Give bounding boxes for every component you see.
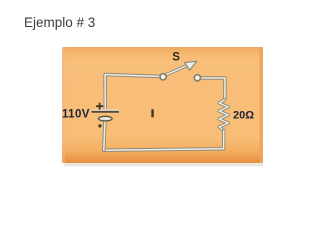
panel shadow (64, 163, 263, 167)
battery minus dot (98, 124, 101, 127)
switch left terminal (160, 74, 166, 80)
label I (current) (151, 109, 154, 117)
wire: resistor bottom to bottom-right corner and bottom wire (104, 131, 224, 151)
switch arm arrowhead (185, 61, 197, 70)
svg-text:110V: 110V (62, 109, 90, 121)
panel right darker edge (260, 47, 264, 163)
svg-text:S: S (172, 51, 180, 63)
resistor R (zigzag) (219, 100, 228, 131)
switch right terminal (194, 75, 200, 81)
wire: battery bottom to bottom-left corner (104, 122, 105, 150)
svg-text:20Ω: 20Ω (233, 110, 254, 122)
battery B1: long positive plate (92, 110, 120, 112)
battery plus sign (97, 103, 103, 109)
panel background (62, 47, 263, 163)
battery B1: short negative plate (99, 116, 113, 121)
title: Ejemplo # 3 (24, 15, 95, 30)
switch S arm (166, 66, 186, 75)
wire: top-left vertical + top wire to switch left terminal (105, 75, 161, 112)
panel left pink edge (62, 47, 65, 163)
wire: switch right terminal to top-right corner down to resistor top (200, 78, 225, 100)
